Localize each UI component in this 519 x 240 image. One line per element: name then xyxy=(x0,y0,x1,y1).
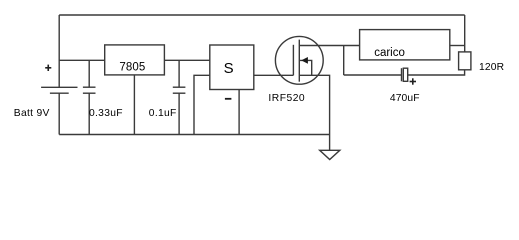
svg-text:0.1uF: 0.1uF xyxy=(149,108,177,119)
wire S box lower-left pin to ground rail xyxy=(194,75,210,134)
label plus of C3 xyxy=(410,78,416,84)
resistor R1 120R xyxy=(459,52,471,70)
wire 470uF right lead to resistor bottom xyxy=(408,70,465,75)
label plus of battery xyxy=(45,65,51,71)
svg-text:120R: 120R xyxy=(479,62,504,73)
wire battery negative to ground rail xyxy=(58,93,60,134)
wire MOSFET drain to carico xyxy=(299,45,359,47)
arrowhead of Q1 xyxy=(301,57,308,64)
wire 0.33uF top tap xyxy=(88,60,90,87)
svg-text:Batt 9V: Batt 9V xyxy=(14,108,50,119)
svg-text:S: S xyxy=(224,60,234,77)
wire ground stub xyxy=(329,135,331,151)
wire bottom ground rail xyxy=(59,134,329,136)
load box carico xyxy=(360,30,450,60)
svg-text:IRF520: IRF520 xyxy=(268,93,305,104)
wire top rail down to 120R resistor xyxy=(464,15,466,52)
sensor U2 S box xyxy=(210,45,254,90)
wire MOSFET source to ground rail xyxy=(299,75,329,134)
wire top rail V+ xyxy=(59,14,465,16)
wire 0.1uF bottom to ground rail xyxy=(178,93,180,134)
wire battery positive to top rail xyxy=(58,15,60,87)
wire 0.1uF top tap xyxy=(178,60,180,87)
battery B1 Batt 9V xyxy=(41,87,77,93)
transistor Q1 IRF520 xyxy=(275,36,323,84)
wire 7805 GND pin down xyxy=(133,75,135,135)
svg-text:carico: carico xyxy=(374,47,405,59)
capacitor C1 0.33uF xyxy=(83,87,96,93)
wire carico right to resistor node xyxy=(450,45,465,47)
regulator U1 7805 box xyxy=(105,45,165,75)
wire S box bottom pin to ground rail xyxy=(238,90,240,135)
capacitor C3 470uF polarized xyxy=(402,68,408,81)
wire 7805 output to S box xyxy=(164,59,209,61)
wire 0.33uF bottom to ground rail xyxy=(88,93,90,134)
capacitor C2 0.1uF xyxy=(173,87,186,93)
wire S box output to MOSFET gate xyxy=(254,74,294,76)
svg-text:7805: 7805 xyxy=(119,62,145,74)
wire 470uF tap from drain node xyxy=(343,46,345,76)
svg-text:0.33uF: 0.33uF xyxy=(89,108,123,119)
svg-text:470uF: 470uF xyxy=(390,93,420,104)
wire battery node to 7805 input xyxy=(59,59,104,61)
label minus pin of S xyxy=(225,98,232,100)
wire 470uF left lead xyxy=(344,74,402,76)
ground xyxy=(320,150,340,159)
